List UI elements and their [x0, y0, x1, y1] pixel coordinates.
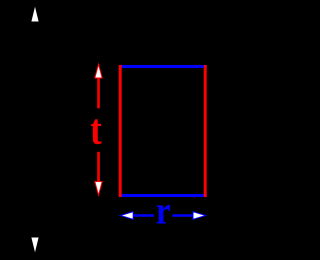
svg-text:t: t [90, 107, 101, 154]
svg-text:r: r [156, 189, 171, 232]
